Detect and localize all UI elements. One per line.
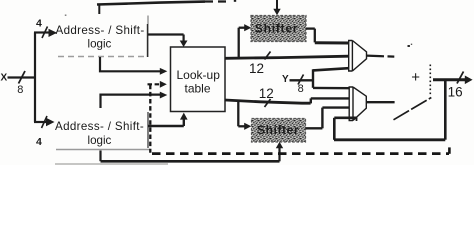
wire G1 output [367, 54, 384, 57]
wire X trunk vertical [34, 33, 36, 123]
svg-text:logic: logic [88, 38, 112, 51]
wire Y input [290, 79, 314, 81]
wire top branch to U1 [34, 31, 49, 33]
arrowhead into LUT top [180, 41, 188, 48]
speck noise [408, 45, 410, 47]
arrowhead into LUT left upper [160, 68, 168, 75]
bus slash X 8-bit [19, 71, 26, 84]
block U1 Address-/Shift-logic top (faded borders) [56, 16, 149, 58]
bus slash 16 [457, 72, 464, 84]
svg-text:Address- / Shift-: Address- / Shift- [55, 120, 144, 133]
svg-text:X: X [1, 73, 8, 84]
svg-text:12: 12 [249, 61, 264, 76]
svg-text:+: + [411, 69, 420, 86]
bus slash 4-bit top [42, 27, 48, 39]
gate G1 combiner top [349, 41, 367, 72]
arrowhead into U2 [46, 118, 55, 127]
gate G2 combiner bottom [349, 87, 366, 121]
svg-text:Look-up: Look-up [177, 68, 221, 82]
arrowhead into LUT bottom [180, 113, 188, 120]
bus slash 12 bottom [265, 99, 271, 107]
wire feedback from output node [444, 80, 447, 140]
svg-text:Y: Y [282, 74, 289, 85]
block SH1 Shifter top (stippled) [251, 16, 306, 42]
wire Y branch to G1 [313, 68, 349, 70]
adder diagonal stroke [394, 98, 432, 120]
svg-text:table: table [185, 81, 211, 95]
wire branch down to SH2 input [237, 102, 239, 127]
wire U2 bottom to shift rail bottom [99, 151, 101, 162]
wire branch up to SH1 input [238, 28, 240, 58]
svg-text:Shifter: Shifter [257, 123, 299, 137]
dashed feedback arrow into LUT [148, 83, 160, 85]
arrowhead into SH2 bottom [276, 142, 283, 149]
wire U2 top to LUT left [101, 95, 161, 108]
svg-text:4: 4 [36, 18, 42, 30]
wire LUT top output bus [225, 56, 349, 58]
wire bottom branch to U2 [34, 121, 46, 123]
svg-text:8: 8 [17, 84, 23, 96]
wire adder output [433, 78, 466, 81]
wire rail drop into SH1 [276, 0, 278, 10]
arrowhead into U1 [49, 29, 58, 37]
block SH2 Shifter bottom (stippled) [252, 119, 306, 143]
svg-text:4: 4 [36, 136, 42, 148]
dashed feedback right hook [448, 147, 451, 153]
block U2 Address-/Shift-logic bottom (faded borders) [55, 112, 168, 164]
arrowhead into SH2 left [244, 123, 251, 130]
wire Y branch to G2 [313, 87, 349, 90]
wire LUT bottom output bus [225, 100, 311, 103]
adder dotted edge [429, 65, 431, 96]
wire top rail (skewed, fading right) [97, 2, 205, 5]
wire X input [8, 76, 36, 78]
wire U2 right to LUT bottom [148, 125, 184, 127]
wire U1 top to shift-amount rail [98, 5, 100, 15]
wire U1 bottom to LUT left [100, 57, 160, 71]
bus slash 12 top [265, 52, 271, 60]
bus slash Y 8-bit [298, 75, 304, 85]
wire Y split vertical [312, 69, 314, 88]
wire SH1 output to gate G1 [306, 27, 315, 29]
wire bottom shift rail [101, 160, 280, 163]
arrowhead into SH1 top [273, 9, 280, 16]
wire step up into G2 middle input [310, 98, 312, 103]
arrowhead into LUT left lower [160, 92, 168, 99]
svg-text:8: 8 [298, 83, 304, 95]
svg-text:16: 16 [448, 85, 463, 100]
svg-text:logic: logic [88, 134, 112, 147]
arrowhead output [465, 76, 473, 85]
arrowhead into SH1 left [244, 24, 251, 31]
dashed feedback left vertical [149, 85, 151, 153]
wire rail rise into SH2 [278, 148, 280, 161]
block LUT Look-up table [171, 47, 226, 112]
svg-text:12: 12 [259, 86, 274, 101]
bus slash 4-bit bottom [42, 116, 48, 128]
svg-text:Shifter: Shifter [255, 22, 299, 36]
svg-text:Address- / Shift-: Address- / Shift- [56, 24, 145, 37]
wire SH2 output to G2 [306, 127, 323, 129]
wire U1 right to LUT top [148, 33, 184, 35]
wire G2 output [367, 101, 395, 103]
dashed feedback bottom rail [152, 152, 449, 155]
